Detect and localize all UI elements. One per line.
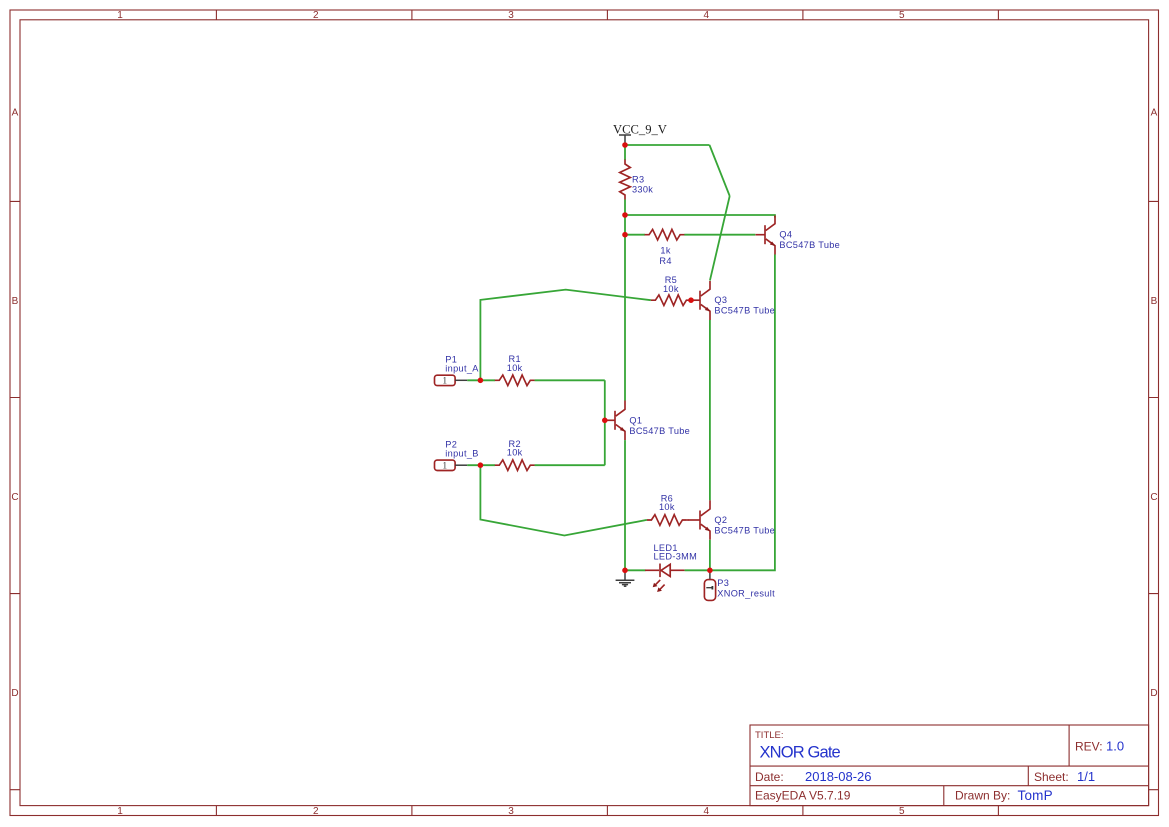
- wire Q1 emitter to ground node: [624, 440, 626, 570]
- junction dot Q1 base: [602, 418, 608, 424]
- wire R1 to Q1 base node: [535, 379, 605, 381]
- svg-text:2: 2: [313, 806, 319, 817]
- resistor R6: [647, 515, 687, 526]
- junction dot ground node: [622, 568, 628, 574]
- svg-text:REV:: REV:: [1075, 740, 1103, 754]
- svg-text:BC547B Tube: BC547B Tube: [714, 526, 775, 536]
- wire P2 to R2: [467, 464, 495, 466]
- svg-text:1: 1: [442, 377, 447, 387]
- resistor R2: [495, 460, 535, 471]
- transistor Q4: [756, 216, 776, 255]
- svg-text:10k: 10k: [663, 284, 679, 294]
- svg-text:3: 3: [508, 10, 514, 21]
- svg-text:Drawn By:: Drawn By:: [955, 789, 1010, 803]
- svg-text:XNOR_result: XNOR_result: [717, 588, 775, 598]
- svg-text:LED-3MM: LED-3MM: [654, 551, 698, 561]
- svg-text:330k: 330k: [632, 185, 653, 195]
- svg-text:2: 2: [313, 10, 319, 21]
- wire diagonal down-left to Q3 collector: [710, 196, 730, 281]
- svg-text:Q4: Q4: [779, 230, 792, 240]
- svg-text:1: 1: [117, 806, 123, 817]
- svg-text:VCC_9_V: VCC_9_V: [613, 122, 667, 136]
- svg-text:Q1: Q1: [629, 415, 642, 425]
- pin 1 of P3: [706, 586, 712, 590]
- svg-text:B: B: [1151, 296, 1158, 307]
- wire R4 left: [625, 234, 645, 236]
- wire VCC top horizontal: [625, 144, 710, 146]
- ground: [616, 570, 635, 586]
- resistor R3: [620, 160, 631, 200]
- svg-text:1: 1: [442, 461, 447, 471]
- svg-text:D: D: [11, 688, 18, 699]
- svg-text:BC547B Tube: BC547B Tube: [714, 306, 775, 316]
- junction dot node R4: [622, 232, 628, 238]
- svg-text:C: C: [1150, 492, 1157, 503]
- svg-text:R3: R3: [632, 175, 644, 185]
- junction dot Q3 base: [688, 297, 694, 303]
- svg-text:input_B: input_B: [445, 448, 478, 458]
- svg-text:1k: 1k: [660, 246, 670, 256]
- svg-text:Sheet:: Sheet:: [1034, 770, 1069, 784]
- resistor R4: [645, 229, 685, 240]
- LED LED1: [645, 564, 685, 593]
- transistor Q1: [606, 401, 626, 441]
- wire Q2 emitter to output node: [709, 540, 711, 571]
- svg-text:10k: 10k: [659, 502, 675, 512]
- wire R6 to Q2 base: [687, 519, 689, 521]
- svg-text:TomP: TomP: [1018, 788, 1053, 803]
- svg-text:D: D: [1150, 688, 1157, 699]
- svg-text:C: C: [11, 492, 18, 503]
- net label VCC_9_V: [613, 122, 667, 136]
- svg-text:4: 4: [704, 10, 710, 21]
- svg-text:input_A: input_A: [445, 364, 479, 374]
- svg-text:4: 4: [704, 806, 710, 817]
- wire P1 to R1: [467, 379, 495, 381]
- svg-text:TITLE:: TITLE:: [755, 730, 784, 741]
- svg-text:EasyEDA V5.7.19: EasyEDA V5.7.19: [755, 789, 851, 803]
- svg-text:A: A: [12, 108, 19, 119]
- wire diagonal down-right: [710, 145, 730, 196]
- svg-text:1/1: 1/1: [1077, 769, 1095, 784]
- svg-text:Q3: Q3: [714, 295, 727, 305]
- svg-text:5: 5: [899, 10, 905, 21]
- svg-text:1: 1: [117, 10, 123, 21]
- junction dot P1: [478, 378, 484, 384]
- wire LED to output node: [685, 569, 710, 571]
- resistor R5: [651, 295, 691, 306]
- svg-text:3: 3: [508, 806, 514, 817]
- svg-text:A: A: [1151, 108, 1158, 119]
- transistor Q3: [691, 281, 710, 320]
- power VCC_9_V: [619, 135, 631, 145]
- svg-text:10k: 10k: [507, 448, 523, 458]
- svg-text:10k: 10k: [507, 363, 523, 373]
- connector P2: [435, 460, 468, 470]
- wire Q1 base vertical: [604, 380, 606, 465]
- svg-text:BC547B Tube: BC547B Tube: [779, 240, 840, 250]
- connector P1: [435, 375, 468, 385]
- wire VCC to R3 top: [624, 145, 626, 160]
- svg-text:R4: R4: [659, 256, 671, 266]
- wire main vertical R3 to Q1 collector: [624, 200, 626, 401]
- junction dot output node: [707, 568, 713, 574]
- svg-text:Q2: Q2: [714, 515, 727, 525]
- svg-text:Date:: Date:: [755, 770, 784, 784]
- resistor R1: [495, 375, 535, 386]
- junction dot node R3 bottom: [622, 212, 628, 218]
- svg-text:5: 5: [899, 806, 905, 817]
- wire Q4 emitter down and to output node: [710, 255, 775, 571]
- wire ground node to LED: [625, 569, 646, 571]
- svg-text:2018-08-26: 2018-08-26: [805, 769, 872, 784]
- wire P2 V-shape to R6: [480, 465, 647, 535]
- wire R4 to Q4 base: [684, 234, 755, 236]
- svg-text:1.0: 1.0: [1106, 739, 1124, 754]
- svg-text:B: B: [12, 296, 19, 307]
- transistor Q2: [689, 500, 711, 539]
- junction dot P2: [478, 462, 484, 468]
- junction dot VCC node: [622, 142, 628, 148]
- svg-text:BC547B Tube: BC547B Tube: [629, 426, 690, 436]
- wire Q3 emitter to Q2 collector: [709, 320, 711, 500]
- connector P3: [704, 570, 715, 600]
- wire R5 tent from P1 node: [480, 290, 651, 381]
- wire R2 to Q1 base node: [535, 464, 605, 466]
- svg-text:XNOR Gate: XNOR Gate: [760, 743, 841, 761]
- wire to Q4 collector: [625, 215, 775, 218]
- svg-text:P3: P3: [717, 578, 729, 588]
